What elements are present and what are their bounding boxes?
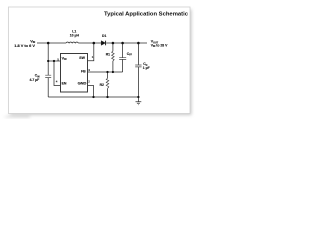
node: SW tap bbox=[93, 42, 96, 45]
svg-text:EN: EN bbox=[62, 82, 67, 86]
wire: top VIN rail bbox=[37, 42, 66, 44]
wire: CIN branch vertical (top part) bbox=[47, 43, 49, 75]
svg-text:R1: R1 bbox=[106, 53, 110, 57]
wire: CIN branch vertical (bottom part) bbox=[47, 78, 49, 97]
bottom-left shadow smudge bbox=[4, 114, 31, 118]
page sheet bbox=[9, 7, 191, 114]
node: CO top bbox=[137, 42, 140, 45]
svg-text:R2: R2 bbox=[100, 83, 104, 87]
node: CFF top bbox=[121, 42, 124, 45]
node: CO bottom / ground bbox=[137, 96, 139, 98]
svg-text:GND: GND bbox=[78, 82, 87, 86]
node: R1 top bbox=[112, 42, 115, 45]
node: VIN rail / CIN tap bbox=[47, 42, 50, 45]
wire: GND branch bbox=[88, 86, 94, 98]
wire: VIN pin 5 wire bbox=[48, 60, 60, 62]
svg-text:VIN: VIN bbox=[62, 56, 67, 61]
wire: EN branch bbox=[54, 61, 60, 86]
title: Typical Application Schematic bbox=[104, 11, 188, 17]
capacitor CO bbox=[137, 43, 139, 97]
resistor R2 bbox=[107, 72, 109, 97]
node: VIN pin wire / CIN bbox=[47, 60, 49, 62]
svg-text:D1: D1 bbox=[102, 34, 106, 38]
capacitor CFF bbox=[122, 43, 124, 72]
inductor L1 bbox=[66, 42, 78, 43]
ground symbol bbox=[136, 97, 142, 105]
svg-text:4.7 µF: 4.7 µF bbox=[30, 78, 40, 82]
node: EN tap bbox=[53, 60, 55, 62]
wire: FB wire bbox=[88, 71, 123, 73]
capacitor CIN plates bbox=[45, 75, 51, 77]
wire: rail D1 cathode to VOUT end bbox=[106, 42, 147, 44]
wire: SW branch bbox=[88, 43, 94, 61]
node: R1 bottom FB bbox=[112, 71, 114, 73]
labels bbox=[14, 30, 168, 87]
svg-text:1.8 V to 6 V: 1.8 V to 6 V bbox=[14, 44, 35, 48]
page drop shadow bbox=[11, 10, 192, 116]
wire: bottom ground rail bbox=[48, 96, 138, 98]
node: R2 top FB bbox=[106, 71, 108, 73]
node: R2 bottom bbox=[106, 96, 108, 98]
svg-text:1 µF: 1 µF bbox=[143, 66, 150, 70]
resistor R1 bbox=[112, 43, 114, 72]
svg-text:Typical Application Schematic: Typical Application Schematic bbox=[104, 11, 188, 17]
diode D1 bbox=[101, 41, 105, 46]
svg-text:SW: SW bbox=[79, 56, 85, 60]
IC U1 box bbox=[61, 54, 88, 93]
junction dots bbox=[47, 42, 140, 98]
wire: rail L1 to D1 bbox=[78, 42, 101, 44]
svg-text:10 µH: 10 µH bbox=[70, 33, 80, 37]
node: GND rail / IC gnd bbox=[92, 96, 94, 98]
svg-text:FB: FB bbox=[81, 70, 86, 74]
